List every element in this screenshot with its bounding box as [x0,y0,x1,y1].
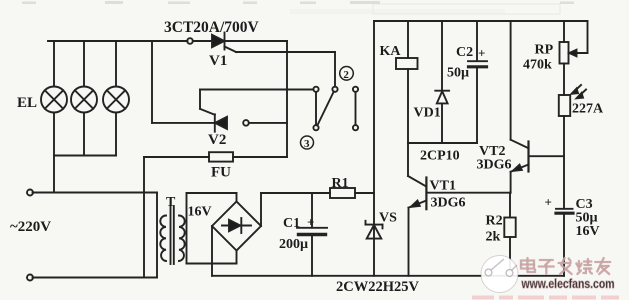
wire regulated rail left [373,21,375,276]
svg-text:VD1: VD1 [414,106,441,121]
capacitor C3 [556,208,573,210]
svg-text:+: + [545,195,552,210]
wire contact C-E [355,92,357,125]
wire bridge DC- down [211,226,213,276]
transistor VT2 [510,21,512,140]
wire lamp drops bottom [53,113,55,193]
svg-text:470k: 470k [523,58,552,73]
svg-text:RP: RP [535,43,554,58]
watermark bottom pink dashes [472,296,619,300]
wire 220V top rail [33,192,158,194]
svg-text:2CW22H25V: 2CW22H25V [336,279,420,295]
faint top edge remnants [22,1,574,4]
svg-text:VS: VS [379,211,397,226]
svg-text:16V: 16V [188,205,212,220]
lamp EL 3 [103,87,129,113]
svg-text:+: + [478,46,485,61]
contact E [353,125,358,130]
resistor R1 [330,188,355,198]
svg-text:EL: EL [17,95,37,111]
svg-text:R2: R2 [486,214,503,229]
contact B [332,87,337,92]
transistor VT1 [407,143,409,176]
terminal on V1 anode wire [187,38,193,44]
terminal top [27,190,33,196]
wire transformer secondary right side [186,193,188,264]
lamp EL 2 [71,87,97,113]
wire FU left [144,156,209,158]
transformer core [170,206,172,264]
contact C [353,87,358,92]
fuse FU [209,152,233,161]
svg-text:FU: FU [211,165,231,181]
wire FU right [233,156,287,158]
svg-text:3CT20A/700V: 3CT20A/700V [164,19,260,36]
switch blade B-D [317,92,334,126]
wire lamp bottom bus [54,155,116,157]
photoresistor 227A [559,95,570,116]
wire lamp top bus [48,40,187,42]
resistor R2 [509,193,511,218]
svg-text:VT1: VT1 [430,179,456,194]
wire V1 cathode to right [225,40,288,42]
svg-text:200µ: 200µ [279,237,308,252]
svg-text:T: T [166,195,176,210]
capacitor C2 [476,21,478,61]
wire transformer left side [156,193,158,278]
relay coil KA [407,21,409,58]
svg-text:2k: 2k [486,230,501,245]
lamp EL 1 [41,87,67,113]
wire to contact A [200,89,313,91]
wire V1 gate [225,47,237,53]
watermark text dianzi fashaoyou (drawn strokes) [521,258,610,274]
wire 220V bottom rail [33,277,158,279]
svg-text:V1: V1 [209,53,227,69]
svg-text:3DG6: 3DG6 [477,158,512,173]
capacitor C1 [311,193,313,228]
svg-text:3: 3 [304,138,310,150]
svg-text:www.elecfans.com: www.elecfans.com [521,277,615,291]
wire divider [563,116,565,209]
wire contact A-D [315,92,317,125]
svg-text:3DG6: 3DG6 [431,196,466,211]
contact D [313,125,318,130]
svg-text:50µ: 50µ [447,66,469,81]
wire switch arm 2 drop [334,52,336,87]
svg-text:16V: 16V [576,224,600,239]
zener VS [366,224,383,226]
wire terminal to V1 [193,40,212,42]
wire V2 cathode rail [151,41,153,123]
node wire KA/VD1/C2 [408,142,477,144]
svg-text:C2: C2 [456,45,473,60]
watermark logo [481,256,518,293]
svg-text:KA: KA [380,44,402,59]
wire top bus [374,20,588,22]
svg-text:V2: V2 [208,132,226,148]
wire DC+ rail to R1 [261,192,330,194]
svg-text:~220V: ~220V [10,219,51,235]
bridge inner diode [222,225,251,227]
svg-text:+: + [307,215,314,230]
wire secondary top to bridge [187,192,237,194]
transformer T secondary [179,216,185,261]
circled 2 [301,67,354,150]
wire lamp drops top [53,41,55,87]
thyristor V2 [214,114,216,131]
wire vertical x287 [286,41,288,157]
potentiometer RP [563,21,565,42]
thyristor V1 [212,35,224,47]
RP wiper wire [572,52,588,54]
terminal bottom [27,275,33,281]
wire V2 anode to x287 [249,122,287,124]
svg-text:R1: R1 [332,176,349,191]
wire V2 gate [200,109,215,115]
svg-text:227A: 227A [572,102,604,117]
bridge rectifier diamond [212,202,261,251]
diode VD1 [441,21,443,91]
svg-text:2CP10: 2CP10 [420,149,460,164]
svg-text:C1: C1 [283,216,300,231]
wire FU drop to bottom rail [143,157,145,278]
svg-text:2: 2 [343,69,349,81]
terminal V2 anode [243,120,249,126]
wire secondary bottom to bridge [187,263,237,265]
contact A [313,87,318,92]
transformer T primary [160,216,166,261]
wire bridge DC+ up [260,193,262,226]
wire ground bus [212,275,564,277]
